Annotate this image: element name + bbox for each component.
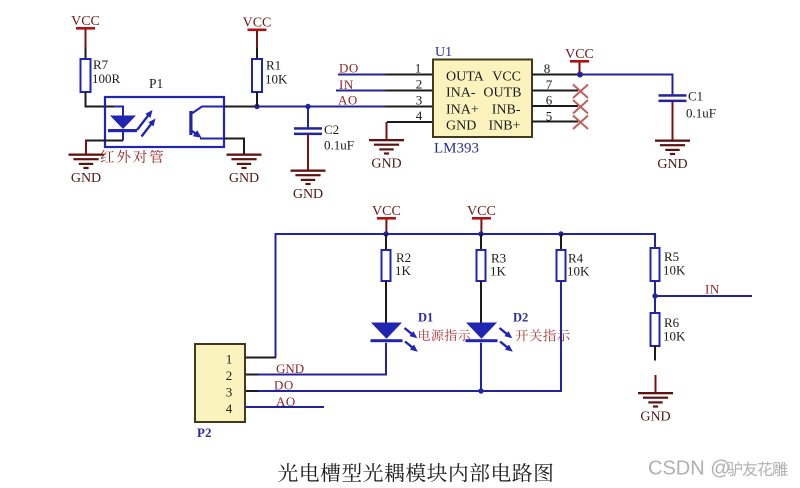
wire pin8 node to C1 (580, 75, 673, 95)
svg-text:4: 4 (226, 401, 233, 416)
wire IN output (655, 295, 752, 297)
power symbol VCC (net of R7) (71, 14, 100, 30)
svg-text:DO: DO (339, 61, 359, 76)
svg-text:0.1uF: 0.1uF (686, 106, 716, 121)
svg-text:0.1uF: 0.1uF (324, 138, 354, 153)
node junction R5/R6/IN (652, 293, 657, 298)
wire main AO net to U1 pin 3 (256, 106, 386, 108)
wire R4 bottom to DO rail (560, 281, 562, 392)
svg-text:INA-: INA- (446, 86, 476, 101)
wire P2 pin2 lead (245, 374, 258, 376)
wire R2 to D1 (385, 281, 387, 323)
power symbol VCC (bottom left) (372, 204, 401, 220)
svg-text:GND: GND (640, 410, 670, 425)
wire C2 to GND (307, 135, 309, 170)
wire rail to R3 (480, 234, 482, 250)
svg-text:OUTB: OUTB (483, 86, 521, 101)
wire R1 bottom (256, 92, 258, 107)
power symbol VCC (net of U1 pin8) (565, 47, 594, 63)
capacitor C1 0.1uF (659, 89, 716, 121)
LED D1 (371, 323, 403, 343)
svg-text:10K: 10K (265, 72, 288, 87)
wire U1 pin 8 to VCC node (532, 74, 580, 76)
wire AO pin lead (385, 106, 433, 108)
wire U1 pin 4 to GND (387, 121, 433, 123)
svg-text:D1: D1 (418, 311, 433, 325)
resistor R1 10K (252, 58, 288, 93)
wire P1 collector to R1 node (224, 106, 258, 108)
svg-text:GND: GND (657, 157, 687, 172)
wire emitter to GND (224, 139, 244, 154)
wire rail to R4 (560, 234, 562, 250)
svg-text:1: 1 (415, 61, 422, 76)
ground symbol GND (under C1) (655, 140, 690, 173)
node junction D2/DO rail (478, 388, 483, 393)
node junction rail/R3 (478, 231, 483, 236)
svg-text:10K: 10K (663, 329, 686, 344)
svg-text:2: 2 (226, 368, 233, 383)
wire U1 pin 6 stub (532, 105, 578, 107)
svg-text:2: 2 (416, 77, 423, 92)
wire R7 bottom to P1 LED anode (86, 92, 115, 107)
resistor R2 1K (382, 250, 412, 281)
svg-text:1: 1 (226, 352, 233, 367)
svg-text:VCC: VCC (71, 14, 100, 29)
node junction pin8/VCC/C1 (577, 72, 583, 78)
svg-text:3: 3 (416, 93, 423, 108)
svg-text:P2: P2 (197, 425, 211, 440)
svg-text:GND: GND (446, 119, 476, 134)
LED D2 (466, 323, 498, 343)
label 红外对管 (infrared pair) (101, 150, 114, 162)
svg-text:OUTA: OUTA (446, 70, 485, 85)
wire U1 pin 7 stub (532, 90, 578, 92)
resistor R3 1K (477, 250, 507, 281)
ground symbol GND (under R6) (638, 392, 673, 425)
optocoupler P1 box (105, 97, 224, 147)
node junction rail/R4 (558, 231, 563, 236)
caption 光电槽型光耦模块内部电路图 (278, 463, 297, 482)
svg-text:DO: DO (274, 378, 294, 393)
wire R6 bottom stub (654, 346, 656, 361)
node junction rail/R2 (383, 231, 388, 236)
no-connect X on pin 6 (573, 100, 588, 114)
svg-text:GND: GND (276, 361, 304, 376)
power symbol VCC (bottom right) (467, 204, 496, 220)
wire C1 to GND (672, 102, 674, 140)
capacitor C2 0.1uF (294, 107, 354, 153)
svg-text:VCC: VCC (243, 16, 272, 31)
LED emitter diode inside P1 (108, 107, 137, 141)
wire R5 to divider node (654, 281, 656, 296)
ground symbol GND (under P1 right) (227, 154, 262, 187)
svg-text:1K: 1K (395, 263, 412, 278)
wire VCC1 stem (85, 30, 87, 48)
wire IN to U1 pin 2 (336, 90, 386, 92)
wire D2 cathode to DO rail (480, 343, 482, 391)
power symbol VCC (net of R1) (243, 16, 272, 32)
no-connect X on pin 7 (573, 85, 588, 99)
ground symbol GND (under P1 left) (69, 154, 104, 187)
wire VCC3 stem (579, 63, 581, 75)
D2 emission arrows (500, 328, 509, 335)
svg-text:IN: IN (705, 282, 720, 297)
resistor R4 10K (557, 250, 591, 281)
wire DO rail (P2 pin3 to R4) (252, 390, 562, 392)
LED emission arrows in P1 (137, 114, 149, 130)
svg-text:INB+: INB+ (488, 119, 520, 134)
svg-text:GND: GND (293, 187, 323, 202)
wire VCC2 stem (256, 31, 258, 48)
wire rail corner to R5 (654, 233, 656, 248)
svg-text:INB-: INB- (492, 103, 521, 118)
svg-text:3: 3 (226, 385, 233, 400)
svg-text:R7: R7 (93, 57, 109, 72)
svg-text:AO: AO (338, 93, 358, 108)
svg-text:U1: U1 (435, 45, 452, 60)
svg-text:VCC: VCC (467, 204, 496, 219)
svg-text:P1: P1 (149, 76, 163, 91)
node junction C2/main (305, 104, 310, 109)
wire U1 pin 5 stub (532, 121, 578, 123)
wire VCC4 stem (385, 220, 387, 235)
label 电源指示 (power indicator) (419, 329, 430, 341)
wire LED cathode to GND (85, 140, 123, 142)
svg-text:VCC: VCC (565, 47, 594, 62)
node junction R1/main (254, 104, 259, 109)
svg-text:VCC: VCC (372, 204, 401, 219)
svg-text:INA+: INA+ (446, 103, 479, 118)
svg-text:GND: GND (371, 157, 401, 172)
svg-text:D2: D2 (513, 311, 528, 325)
connector P2 body (195, 344, 245, 422)
wire node to R6 (654, 296, 656, 313)
wire top rail (VCC distribution) (276, 234, 656, 358)
resistor R5 10K (651, 248, 687, 281)
svg-text:1K: 1K (490, 264, 507, 279)
svg-text:10K: 10K (567, 264, 590, 279)
wire rail to R2 (385, 234, 387, 250)
svg-text:CSDN @: CSDN @ (648, 458, 731, 480)
D1 emission arrows (405, 328, 414, 335)
phototransistor inside P1 (189, 107, 224, 139)
resistor R7 100R (81, 57, 121, 92)
wire R3 to D2 (480, 281, 482, 323)
svg-text:100R: 100R (92, 71, 121, 86)
wire D1 cathode to P2 pin2 (252, 343, 386, 375)
op-amp U1 LM393 body (433, 60, 532, 138)
wire P2 pin4 AO stub (245, 406, 324, 408)
wire DO to U1 pin 1 (338, 74, 386, 76)
wire R6 gnd stem (655, 375, 657, 392)
resistor R6 10K (651, 313, 687, 346)
ground symbol GND (under U1 pin4) (369, 139, 404, 172)
svg-text:C1: C1 (688, 89, 703, 104)
wire P2 pin1 lead (245, 357, 276, 359)
svg-text:LM393: LM393 (434, 141, 479, 157)
svg-text:GND: GND (71, 171, 101, 186)
no-connect X on pin 5 (573, 116, 588, 130)
svg-text:GND: GND (229, 171, 259, 186)
svg-text:R1: R1 (266, 58, 281, 73)
label 开关指示 (switch indicator) (516, 330, 529, 342)
svg-text:4: 4 (416, 108, 423, 123)
svg-text:VCC: VCC (492, 70, 521, 85)
wire VCC5 stem (480, 220, 482, 235)
svg-text:C2: C2 (324, 122, 339, 137)
ground symbol GND (under C2) (291, 170, 326, 203)
wire P2 pin3 lead (245, 390, 258, 392)
svg-text:10K: 10K (663, 263, 686, 278)
wire gnd stem left (85, 140, 87, 154)
